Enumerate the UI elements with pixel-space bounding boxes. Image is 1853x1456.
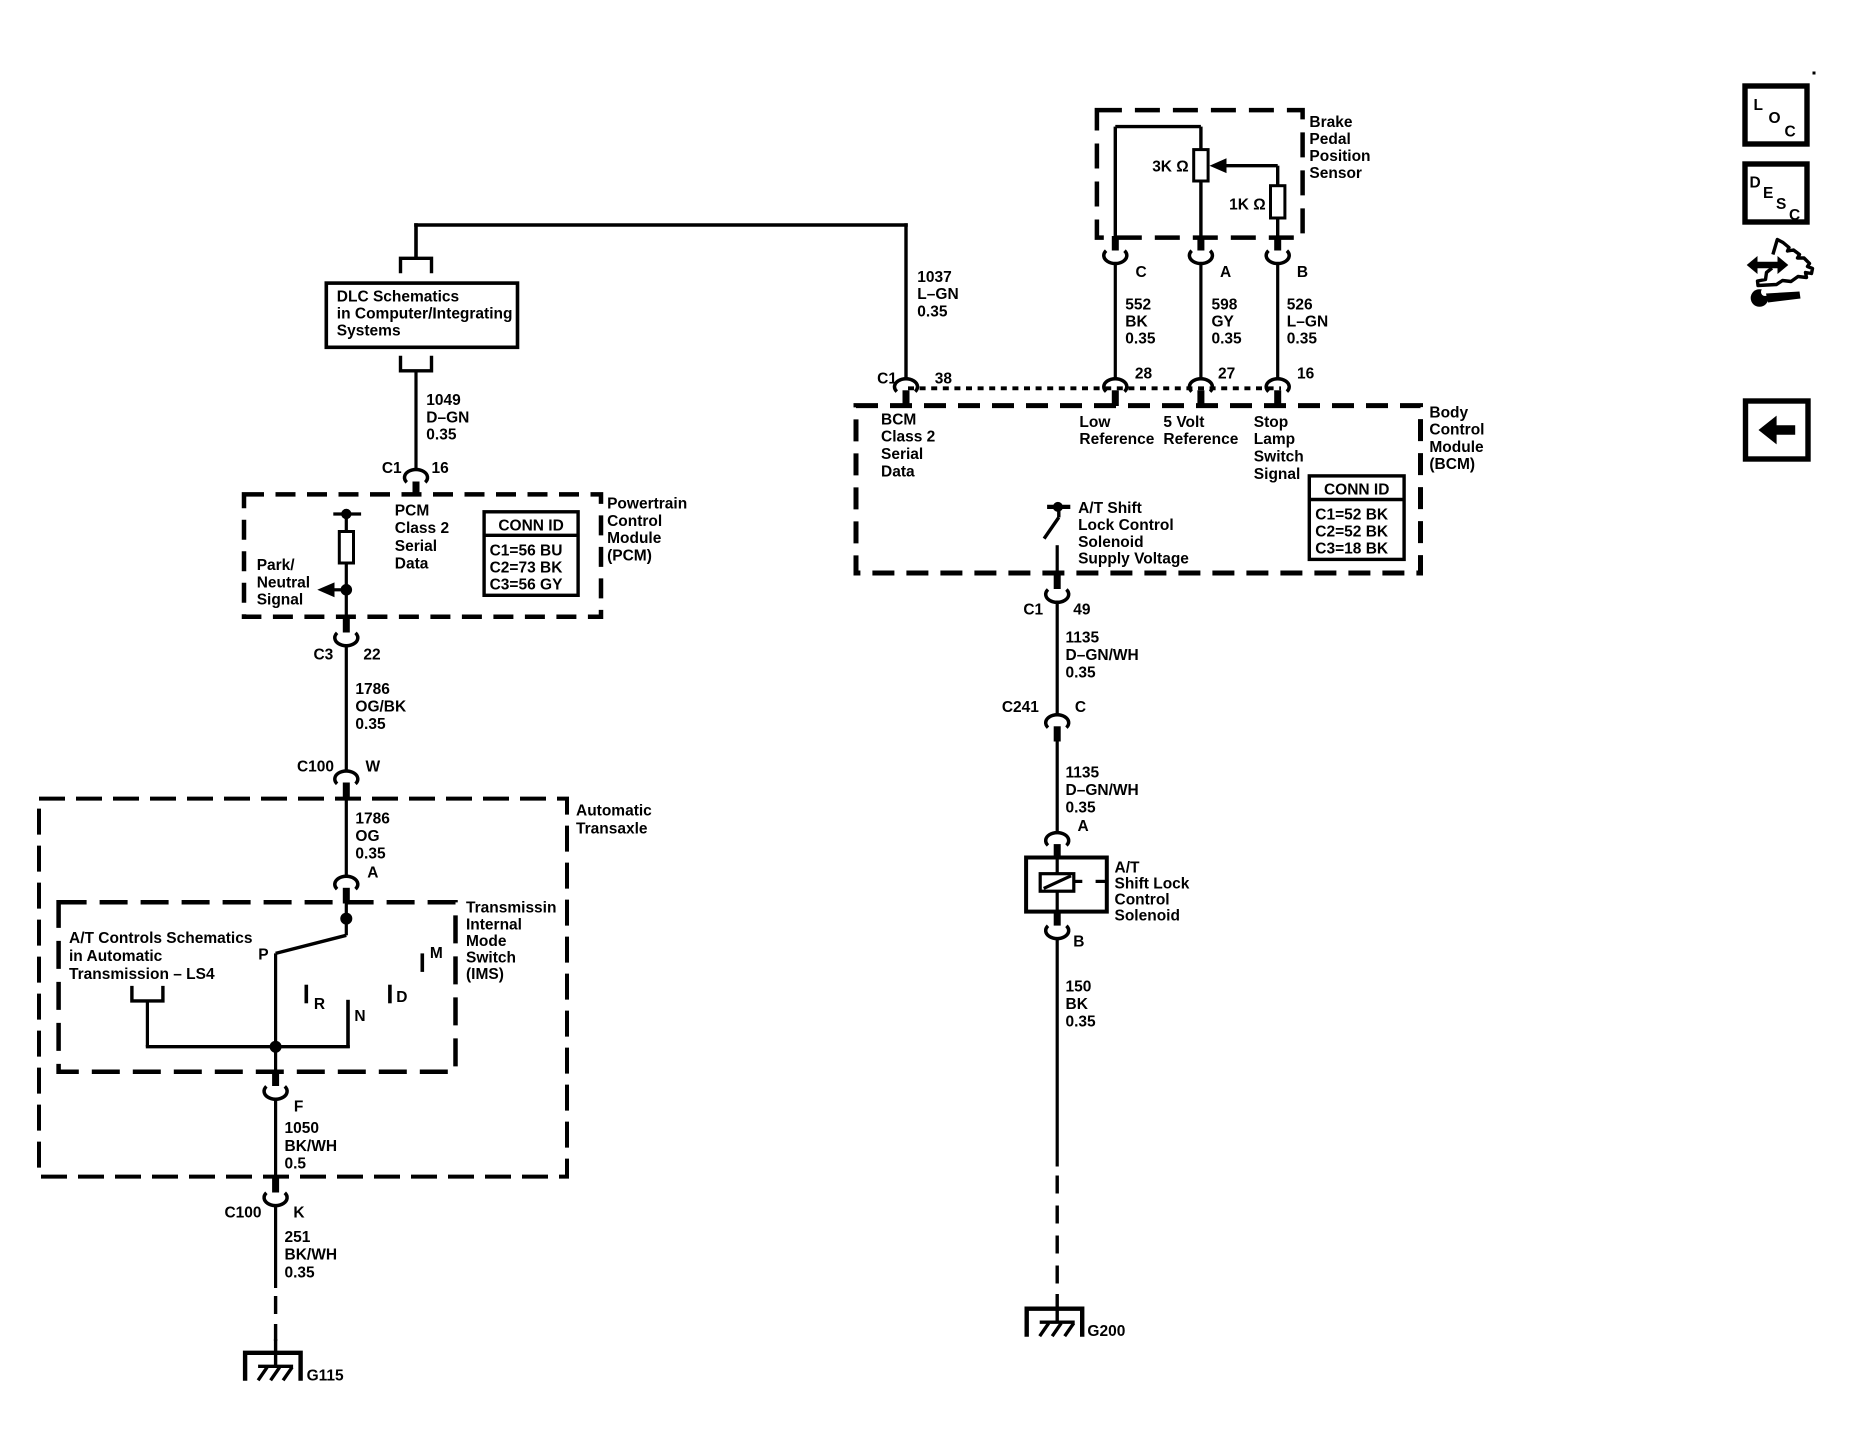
svg-text:Module: Module — [607, 530, 662, 547]
svg-text:C1=52 BK: C1=52 BK — [1315, 506, 1389, 523]
BCM module dashed box — [856, 406, 1421, 573]
svg-text:Solenoid: Solenoid — [1078, 534, 1143, 551]
node junction at IMS switch common — [340, 913, 352, 925]
label wire 1037 L-GN 0.35 — [917, 269, 958, 321]
wire 1037 vertical drop to BCM — [904, 223, 907, 379]
label wire 1135 D-GN/WH 0.35 upper — [1066, 630, 1139, 682]
svg-text:Class 2: Class 2 — [395, 520, 449, 537]
svg-text:27: 27 — [1218, 366, 1235, 383]
wire sensor internal top bus — [1115, 127, 1201, 238]
svg-text:L–GN: L–GN — [1287, 314, 1328, 331]
wire 1786 OG/BK from PCM to C100 — [345, 645, 348, 771]
svg-text:M: M — [430, 945, 443, 962]
svg-text:0.35: 0.35 — [1212, 331, 1243, 348]
svg-text:Serial: Serial — [881, 446, 923, 463]
svg-text:0.35: 0.35 — [355, 716, 386, 733]
switch IMS rotary contact arm (P position) — [276, 919, 347, 1047]
resistor 3K potentiometer — [1194, 127, 1208, 238]
svg-text:GY: GY — [1212, 314, 1235, 331]
svg-text:C3=56 GY: C3=56 GY — [490, 576, 563, 593]
label Automatic Transaxle — [576, 803, 652, 838]
A/T Shift Lock Control Solenoid component box — [1026, 858, 1107, 912]
svg-text:C: C — [1075, 699, 1086, 716]
icon button DESC — [1745, 164, 1807, 224]
svg-text:Serial: Serial — [395, 538, 437, 555]
svg-text:F: F — [294, 1099, 303, 1116]
label wire 150 BK 0.35 — [1066, 979, 1097, 1031]
label wire 552 BK 0.35 — [1125, 296, 1156, 347]
svg-text:49: 49 — [1073, 602, 1091, 619]
contact N — [348, 1000, 366, 1048]
svg-text:Body: Body — [1429, 404, 1468, 421]
svg-text:R: R — [314, 996, 325, 1013]
svg-text:C1: C1 — [877, 371, 897, 388]
svg-text:Lock Control: Lock Control — [1078, 517, 1174, 534]
svg-text:552: 552 — [1125, 296, 1151, 313]
connector sensor terminal A — [1189, 236, 1231, 281]
PCM module dashed box — [244, 494, 601, 616]
svg-text:G115: G115 — [307, 1368, 344, 1385]
svg-text:Shift Lock: Shift Lock — [1115, 876, 1190, 893]
svg-text:OG/BK: OG/BK — [355, 699, 407, 716]
svg-text:A/T Shift: A/T Shift — [1078, 500, 1142, 517]
label A/T Controls Schematics in Automatic Transmission - LS4 — [69, 930, 252, 983]
svg-text:Class 2: Class 2 — [881, 429, 935, 446]
svg-text:A: A — [1220, 264, 1231, 281]
wire dotted in-line connector row C1 — [908, 386, 1281, 390]
svg-text:0.35: 0.35 — [917, 303, 948, 320]
svg-text:3K Ω: 3K Ω — [1152, 159, 1189, 176]
resistor (PCM internal pull-up) — [333, 509, 361, 617]
label wire 598 GY 0.35 — [1212, 296, 1243, 347]
off-page reference bracket below DLC box — [401, 356, 432, 371]
svg-text:1786: 1786 — [355, 810, 390, 827]
svg-text:BK: BK — [1066, 996, 1089, 1013]
contact D — [390, 985, 408, 1007]
svg-text:G200: G200 — [1087, 1323, 1125, 1340]
svg-text:C1: C1 — [382, 460, 402, 477]
wire from A/T Controls reference to switch bus — [146, 1001, 149, 1047]
svg-text:28: 28 — [1135, 366, 1153, 383]
svg-text:Systems: Systems — [337, 323, 401, 340]
svg-text:Pedal: Pedal — [1309, 131, 1350, 148]
svg-text:Data: Data — [395, 556, 429, 573]
svg-text:C: C — [1789, 207, 1800, 224]
label wire 1050 BK/WH 0.5 — [285, 1120, 338, 1173]
svg-text:526: 526 — [1287, 296, 1313, 313]
contact R — [306, 985, 325, 1014]
off-page reference bracket above DLC box — [401, 258, 432, 273]
svg-text:A: A — [367, 865, 378, 882]
svg-text:A/T Controls Schematics: A/T Controls Schematics — [69, 930, 252, 947]
svg-text:Signal: Signal — [257, 592, 304, 609]
svg-text:D–GN/WH: D–GN/WH — [1066, 647, 1139, 664]
wire top horizontal bus 1037 from DLC branch to BCM — [414, 223, 908, 257]
svg-text:L–GN: L–GN — [917, 286, 958, 303]
svg-text:1135: 1135 — [1066, 630, 1100, 647]
connector terminal A at IMS — [335, 876, 358, 903]
svg-text:Control: Control — [607, 513, 662, 530]
connector solenoid terminal B — [1046, 912, 1085, 951]
label Park/Neutral Signal — [257, 557, 310, 609]
wire 1135 D-GN/WH lower — [1056, 742, 1059, 834]
svg-text:Sensor: Sensor — [1309, 165, 1362, 182]
svg-text:Reference: Reference — [1079, 431, 1154, 448]
label BCM Class 2 Serial Data — [881, 411, 935, 480]
label PCM Class 2 Serial Data — [395, 502, 449, 572]
svg-text:D–GN/WH: D–GN/WH — [1066, 782, 1139, 799]
label wire 1786 OG 0.35 and terminal A — [355, 810, 390, 881]
svg-text:C2=52 BK: C2=52 BK — [1315, 523, 1389, 540]
svg-text:Transaxle: Transaxle — [576, 820, 648, 837]
svg-text:Control: Control — [1429, 422, 1484, 439]
svg-text:0.35: 0.35 — [1287, 331, 1318, 348]
wire dashed lead to G115 — [274, 1296, 277, 1341]
svg-text:0.35: 0.35 — [426, 427, 457, 444]
svg-text:K: K — [293, 1205, 305, 1222]
svg-text:in Computer/Integrating: in Computer/Integrating — [337, 306, 513, 323]
svg-text:S: S — [1776, 196, 1786, 213]
wire 526 L-GN — [1276, 263, 1279, 380]
IMS dashed box — [59, 902, 456, 1071]
svg-text:C: C — [1785, 124, 1796, 141]
svg-text:BK/WH: BK/WH — [285, 1247, 338, 1264]
svg-text:C1=56 BU: C1=56 BU — [490, 542, 563, 559]
svg-text:22: 22 — [363, 646, 380, 663]
svg-text:Brake: Brake — [1309, 114, 1352, 131]
connector terminal F below IMS — [264, 1070, 303, 1116]
off-page reference bracket A/T Controls — [132, 986, 163, 1001]
svg-text:in Automatic: in Automatic — [69, 948, 163, 965]
svg-text:(IMS): (IMS) — [466, 966, 504, 983]
svg-text:Powertrain: Powertrain — [607, 495, 687, 512]
connector solenoid terminal A — [1046, 818, 1089, 858]
ground G115 — [245, 1353, 344, 1385]
svg-text:E: E — [1763, 185, 1773, 202]
svg-text:16: 16 — [432, 460, 450, 477]
svg-text:0.35: 0.35 — [1066, 799, 1097, 816]
wire 1786 OG inside transaxle — [345, 796, 348, 877]
svg-text:1050: 1050 — [285, 1120, 319, 1137]
svg-text:C1: C1 — [1023, 602, 1043, 619]
connector C100 pin W — [297, 759, 381, 798]
svg-text:N: N — [354, 1008, 365, 1025]
svg-text:(BCM): (BCM) — [1429, 456, 1475, 473]
svg-text:D–GN: D–GN — [426, 409, 469, 426]
label Transmissin Internal Mode Switch (IMS) — [466, 900, 556, 983]
svg-text:Automatic: Automatic — [576, 803, 652, 820]
ground G200 — [1027, 1309, 1126, 1340]
label wire 1135 D-GN/WH 0.35 lower — [1066, 765, 1139, 817]
connector C1 pin 49 below BCM — [1023, 571, 1091, 619]
svg-text:Reference: Reference — [1163, 431, 1238, 448]
svg-text:B: B — [1297, 264, 1308, 281]
contact M — [422, 945, 443, 972]
icon button back arrow — [1746, 401, 1809, 459]
svg-text:BCM: BCM — [881, 411, 916, 428]
svg-text:1786: 1786 — [355, 681, 390, 698]
label wire 526 L-GN 0.35 — [1287, 296, 1328, 347]
icon compare-schematic (arrows, outline, wrench) — [1747, 240, 1813, 307]
wire 150 BK — [1056, 938, 1059, 1166]
label Body Control Module (BCM) — [1429, 404, 1484, 473]
wire IMS bottom bus — [146, 1045, 350, 1048]
svg-text:Transmission – LS4: Transmission – LS4 — [69, 966, 215, 983]
svg-text:BK: BK — [1125, 314, 1148, 331]
svg-text:C100: C100 — [224, 1205, 261, 1222]
svg-text:150: 150 — [1066, 979, 1092, 996]
svg-text:Low: Low — [1079, 414, 1111, 431]
CONN ID table (BCM) — [1309, 476, 1404, 560]
connector BCM pin 16 — [1266, 366, 1314, 406]
svg-text:Park/: Park/ — [257, 557, 296, 574]
svg-text:B: B — [1073, 934, 1084, 951]
wire 1135 D-GN/WH upper — [1056, 602, 1059, 716]
svg-text:1049: 1049 — [426, 392, 461, 409]
connector sensor terminal B — [1266, 236, 1308, 281]
svg-text:Mode: Mode — [466, 933, 507, 950]
connector C241 pin C — [1002, 699, 1086, 741]
svg-text:D: D — [396, 989, 407, 1006]
wire 552 BK — [1114, 263, 1117, 380]
label Powertrain Control Module (PCM) — [607, 495, 687, 564]
icon button LOC — [1745, 86, 1807, 144]
svg-text:0.35: 0.35 — [285, 1265, 316, 1282]
svg-text:1K Ω: 1K Ω — [1229, 197, 1266, 214]
svg-text:(PCM): (PCM) — [607, 548, 652, 565]
svg-text:C2=73 BK: C2=73 BK — [490, 559, 564, 576]
CONN ID table (PCM) — [484, 512, 578, 596]
connector BCM pin 28 — [1104, 366, 1153, 406]
connector C1 pin 16 at PCM — [382, 460, 449, 496]
connector sensor terminal C — [1104, 236, 1147, 281]
svg-text:L: L — [1754, 97, 1763, 114]
connector C3 pin 22 below PCM — [313, 615, 380, 663]
node junction on IMS bus — [270, 1041, 282, 1053]
svg-text:Stop: Stop — [1254, 414, 1288, 431]
svg-text:Signal: Signal — [1254, 466, 1301, 483]
svg-text:0.35: 0.35 — [1066, 1013, 1097, 1030]
svg-text:0.35: 0.35 — [355, 846, 386, 863]
svg-text:1037: 1037 — [917, 269, 951, 286]
wire 1050 BK/WH — [274, 1099, 277, 1178]
svg-text:C: C — [1136, 264, 1147, 281]
label wire 1786 OG/BK 0.35 — [355, 681, 407, 733]
svg-text:C3=18 BK: C3=18 BK — [1315, 540, 1389, 557]
resistor 1K — [1271, 186, 1285, 238]
svg-text:D: D — [1750, 175, 1761, 192]
svg-text:0.35: 0.35 — [1125, 331, 1156, 348]
svg-text:O: O — [1769, 110, 1781, 127]
mark small dot top right — [1813, 72, 1816, 75]
svg-text:OG: OG — [355, 828, 379, 845]
label Stop Lamp Switch Signal — [1254, 414, 1304, 483]
svg-text:W: W — [366, 759, 381, 776]
svg-text:598: 598 — [1212, 296, 1238, 313]
svg-text:Control: Control — [1115, 892, 1170, 909]
svg-text:251: 251 — [285, 1229, 311, 1246]
svg-text:0.35: 0.35 — [1066, 664, 1097, 681]
svg-text:C100: C100 — [297, 759, 334, 776]
svg-text:0.5: 0.5 — [285, 1156, 307, 1173]
svg-text:CONN ID: CONN ID — [498, 517, 563, 534]
svg-text:Lamp: Lamp — [1254, 431, 1295, 448]
label Low Reference — [1079, 414, 1154, 448]
svg-text:Switch: Switch — [466, 950, 516, 967]
svg-text:Data: Data — [881, 463, 915, 480]
svg-text:P: P — [258, 946, 268, 963]
svg-text:1135: 1135 — [1066, 765, 1100, 782]
svg-text:Neutral: Neutral — [257, 574, 310, 591]
connector C100 pin K — [224, 1177, 305, 1222]
wire 598 GY — [1199, 263, 1202, 380]
label wire 1049 D-GN 0.35 — [426, 392, 469, 444]
node junction Park/Neutral tap — [341, 584, 353, 596]
wire 1049 D-GN from DLC to PCM — [414, 370, 417, 470]
svg-text:5 Volt: 5 Volt — [1163, 414, 1204, 431]
svg-text:BK/WH: BK/WH — [285, 1138, 338, 1155]
svg-text:38: 38 — [935, 371, 953, 388]
svg-text:A: A — [1078, 818, 1089, 835]
label A/T Shift Lock Control Solenoid Supply Voltage — [1078, 500, 1189, 567]
svg-text:C3: C3 — [313, 646, 333, 663]
label wire 251 BK/WH 0.35 — [285, 1229, 338, 1282]
svg-text:Transmissin: Transmissin — [466, 900, 556, 917]
svg-text:Solenoid: Solenoid — [1115, 908, 1180, 925]
label Brake Pedal Position Sensor — [1309, 114, 1370, 182]
wiper arrow of potentiometer — [1210, 158, 1278, 185]
svg-text:Switch: Switch — [1254, 449, 1304, 466]
connector C1 pin 38 at BCM — [877, 371, 952, 406]
label 5 Volt Reference — [1163, 414, 1238, 448]
wire dashed lead to G200 — [1055, 1176, 1058, 1286]
svg-text:Module: Module — [1429, 439, 1484, 456]
svg-text:Supply Voltage: Supply Voltage — [1078, 551, 1189, 568]
wire 251 BK/WH — [274, 1205, 277, 1288]
svg-text:Internal: Internal — [466, 916, 522, 933]
connector BCM pin 27 — [1189, 366, 1235, 406]
svg-text:A/T: A/T — [1115, 860, 1141, 877]
switch A/T shift lock control (BCM internal) — [1044, 502, 1070, 572]
svg-text:CONN ID: CONN ID — [1324, 482, 1389, 499]
Automatic Transaxle dashed box — [39, 799, 567, 1177]
label A/T Shift Lock Control Solenoid — [1115, 860, 1190, 925]
svg-text:Position: Position — [1309, 148, 1370, 165]
svg-text:DLC Schematics: DLC Schematics — [337, 288, 459, 305]
svg-text:PCM: PCM — [395, 502, 429, 519]
wire from A into IMS — [345, 903, 348, 919]
arrow Park/Neutral Signal — [317, 582, 346, 597]
wire junction to terminal F — [274, 1047, 277, 1070]
DLC Schematics reference box — [326, 283, 517, 347]
Brake Pedal Position Sensor dashed box — [1097, 110, 1303, 238]
svg-text:16: 16 — [1297, 366, 1315, 383]
svg-text:C241: C241 — [1002, 699, 1039, 716]
